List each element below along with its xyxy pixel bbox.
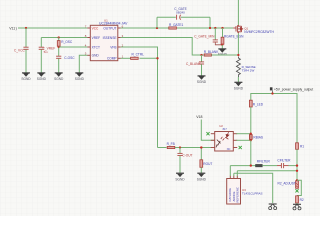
node opto collector — [250, 133, 252, 135]
wire R1 column — [296, 93, 298, 143]
no-connect X (U2 pin bottom-right) — [239, 146, 242, 149]
svg-text:RFILTER: RFILTER — [257, 160, 271, 164]
svg-text:CFILTER: CFILTER — [277, 159, 291, 163]
wire U3 cathode riser — [229, 166, 231, 176]
node RGATE_BGN/C_GATE_MIN join — [221, 44, 223, 46]
wire C_BLANK column lower — [201, 64, 203, 75]
ground SGND (C-OUT) — [175, 173, 185, 181]
wire ISSENSE trace — [121, 38, 204, 56]
wire C-OUT column lower — [179, 156, 181, 173]
pin 1 COMP — [107, 55, 124, 61]
node opto emitter — [250, 139, 252, 141]
wire C_VCC column upper — [25, 28, 27, 47]
svg-text:REFERENC: REFERENC — [235, 187, 239, 202]
optocoupler U2 LED — [221, 132, 230, 140]
svg-text:GND: GND — [92, 54, 100, 58]
node VREF/R_OSC junction — [58, 36, 60, 38]
capacitor C-OUT — [177, 153, 182, 155]
wire U1 GND pin to ground — [79, 55, 87, 72]
wire RFILTER to CFILTER — [262, 165, 277, 167]
wire join to ground — [221, 45, 223, 49]
resistor R_BLANK — [204, 54, 211, 56]
svg-text:R_BLANK: R_BLANK — [204, 50, 219, 54]
pin 6 OUTPUT — [103, 24, 123, 30]
svg-text:V11: V11 — [9, 26, 15, 30]
wire R_OSC to XTCT node — [58, 46, 60, 56]
svg-text:RGATE_BGN: RGATE_BGN — [224, 34, 244, 38]
ground SGND (C_VREF) — [37, 73, 47, 81]
svg-text:C-OUT: C-OUT — [182, 154, 192, 158]
wire VFB trace — [121, 47, 158, 148]
svg-text:SGND: SGND — [54, 77, 64, 81]
node R_FB/opto junction — [200, 146, 202, 148]
svg-text:NC: NC — [227, 148, 231, 151]
wire V11 to U1 VCC — [18, 27, 87, 29]
pin 5 GND — [85, 52, 100, 58]
optocoupler U2 body — [215, 124, 234, 151]
svg-text:TL431CLPRAS: TL431CLPRAS — [242, 192, 263, 196]
svg-text:R2: R2 — [300, 198, 304, 202]
transistor Q1 — [233, 25, 242, 34]
wire reference row (wire2) — [237, 170, 297, 172]
resistor R_OSC — [57, 41, 60, 47]
wire cathode row (wire1) — [230, 165, 255, 167]
wire C_BLANK column upper — [201, 55, 203, 62]
wire CFILTER to R1 column — [289, 165, 298, 167]
svg-text:R2_ADJUST: R2_ADJUST — [278, 182, 296, 186]
node RBIAS column joins wire1 — [250, 164, 252, 166]
chassis ground (R2) — [293, 204, 301, 210]
capacitor C_VCC — [23, 47, 28, 49]
wire anode row (wire3) — [234, 173, 273, 203]
wire C_GATE_MIN column — [214, 28, 216, 40]
node +5V port junction — [271, 92, 273, 94]
resistor R_GATE1 — [169, 27, 177, 29]
pin 8 VREF — [85, 34, 100, 40]
wire VREF row — [41, 37, 87, 39]
capacitor C-OSC — [56, 56, 61, 58]
node V11/C_VCC junction — [25, 27, 27, 29]
wire V18 riser — [201, 120, 214, 141]
svg-text:SGND: SGND — [37, 77, 47, 81]
capacitor C_GATE — [177, 15, 181, 20]
svg-text:U2: U2 — [219, 124, 223, 128]
node wire1 / R1 column — [296, 164, 298, 166]
svg-text:SGND: SGND — [75, 77, 85, 81]
resistor R2_ADJUST — [296, 181, 299, 189]
svg-text:SGND: SGND — [21, 77, 31, 81]
svg-text:R1: R1 — [300, 145, 304, 149]
wire COMP trace — [121, 57, 131, 59]
ground SGND (C_VCC) — [21, 73, 31, 81]
wire RBIAS node down to RFILTER row — [250, 140, 252, 165]
svg-text:R_CTRL: R_CTRL — [132, 53, 145, 57]
ground SGND (ROUT) — [197, 173, 207, 181]
pin 3 ISSENSE — [103, 34, 124, 40]
wire C_GATE branch up — [156, 17, 158, 28]
svg-text:C_BLANK: C_BLANK — [186, 62, 201, 66]
resistor R2 — [296, 196, 299, 203]
node XTCT junction — [58, 46, 60, 48]
U2 left pin stubs — [211, 134, 215, 148]
wire OUTPUT row left part — [121, 27, 169, 29]
wire ROUT column upper — [200, 148, 202, 160]
svg-text:SGND: SGND — [197, 178, 207, 182]
ground SGND (R_SENSE) — [234, 82, 244, 90]
wire R_SENSE to ground — [237, 77, 239, 82]
no-connect X (R2_ADJUST wiper) — [295, 189, 298, 192]
wire Q1 drain up to edge — [237, 0, 239, 25]
ground SGND (C-OSC) — [54, 73, 64, 81]
svg-text:OUTPUT: OUTPUT — [103, 26, 116, 30]
svg-text:VREF: VREF — [92, 36, 101, 40]
node ROUT tap — [200, 146, 202, 148]
wire C_GATE branch down — [209, 17, 211, 28]
svg-text:817: 817 — [223, 128, 228, 131]
wire C-OUT column upper — [179, 148, 181, 154]
wire ROUT column lower — [200, 167, 202, 173]
wire XTCT row — [59, 46, 88, 48]
wire R_BLANK to sense node — [212, 54, 239, 56]
node RGATE_BGN tap — [221, 27, 223, 29]
wire U2 collector to +5V column — [236, 133, 251, 135]
node COMP/VFB junction — [156, 57, 158, 59]
op-amp U1 UC2844 PWM controller body — [90, 18, 128, 60]
resistor ROUT — [200, 160, 203, 168]
svg-text:V18: V18 — [196, 115, 202, 119]
ground SGND (gate) — [218, 49, 228, 57]
wire R_FB row left — [158, 147, 167, 149]
port +5V_power_supply_output — [270, 87, 313, 93]
svg-text:SGND: SGND — [175, 178, 185, 182]
capacitor C_VREF — [39, 47, 44, 49]
svg-text:R_GATE1: R_GATE1 — [169, 23, 184, 27]
wire Q1 source down — [237, 33, 239, 55]
wire U3 reference riser — [236, 171, 238, 176]
svg-text:NVMFC2RC8ZWTH: NVMFC2RC8ZWTH — [244, 30, 274, 34]
svg-text:UC2844MN04 JAV: UC2844MN04 JAV — [99, 22, 128, 26]
node C-OUT tap — [179, 146, 181, 148]
wire C_GATE branch top left — [157, 16, 176, 18]
pin 2 VFB — [110, 43, 123, 49]
node R2_ADJUST top — [296, 179, 298, 181]
svg-text:R_FB: R_FB — [167, 142, 175, 146]
svg-text:T3R4 2W: T3R4 2W — [242, 68, 255, 72]
node OUTPUT / C_GATE branch — [156, 27, 158, 29]
node C_BLANK tap — [200, 54, 202, 56]
node wire2 / R1 column — [296, 170, 298, 172]
svg-text:): ) — [16, 26, 17, 30]
optocoupler U2 phototransistor — [216, 140, 221, 148]
svg-text:ROUT: ROUT — [203, 162, 212, 166]
resistor RFILTER — [256, 164, 263, 167]
wire R1 lower — [296, 149, 298, 180]
capacitor C_BLANK — [199, 62, 204, 64]
svg-text:C_GATE_MIN: C_GATE_MIN — [194, 34, 215, 38]
wire R2_ADJUST bypass jumper — [297, 180, 301, 195]
node sense junction — [237, 54, 239, 56]
svg-text:RBIAS: RBIAS — [253, 136, 263, 140]
U2 right pin stubs — [233, 134, 237, 148]
capacitor CFILTER — [277, 163, 289, 168]
resistor R_FB — [167, 146, 175, 148]
wire U2 emitter to +5V column — [236, 139, 251, 141]
wire +5V rail — [251, 93, 297, 95]
wire R_LED to opto collector node — [250, 107, 252, 134]
svg-text:SGND: SGND — [234, 87, 244, 91]
capacitor C_GATE_MIN — [213, 40, 218, 42]
wire C_VREF column upper — [40, 38, 42, 48]
svg-text:XTCT: XTCT — [92, 45, 100, 49]
wire R_CTRL to VFB column — [140, 57, 158, 59]
svg-text:VFB: VFB — [110, 45, 116, 49]
voltage reference U3 TL431 body — [227, 179, 263, 205]
svg-text:ISSENSE: ISSENSE — [103, 36, 117, 40]
svg-text:C_VCC: C_VCC — [14, 48, 26, 52]
svg-text:5m: 5m — [44, 50, 49, 54]
port V11 — [9, 26, 17, 30]
wire C_GATE_MIN bottom jog — [215, 42, 222, 45]
wire R_LED column upper — [250, 93, 252, 100]
resistor R_CTRL — [131, 57, 139, 59]
svg-text:R_OSC: R_OSC — [61, 40, 73, 44]
wire C_VREF column lower — [40, 50, 42, 73]
wire U3 anode riser — [233, 173, 235, 176]
svg-text:VCC: VCC — [92, 26, 99, 30]
wire OUTPUT row right part to Q1 gate — [177, 27, 233, 29]
svg-text:SGND: SGND — [197, 80, 207, 84]
svg-text:0B240: 0B240 — [176, 10, 185, 14]
wire C_VCC column lower — [25, 50, 27, 73]
wire C-OSC lower — [58, 59, 60, 73]
resistor R1 — [296, 143, 299, 150]
chassis ground (anode) — [269, 204, 277, 210]
resistor RBIAS — [249, 135, 252, 140]
pin 4 XTCT — [85, 43, 100, 49]
wire C_GATE branch top right — [181, 16, 210, 18]
node C_GATE rejoin — [209, 27, 211, 29]
ground SGND (U1 GND) — [75, 73, 85, 81]
ground SGND (C_BLANK) — [197, 76, 207, 84]
wire R2 to ground — [296, 203, 298, 204]
svg-text:COMP: COMP — [107, 57, 117, 61]
pin 7 VCC — [85, 24, 99, 30]
svg-text:+5V_power_supply_output: +5V_power_supply_output — [274, 87, 313, 91]
resistor R_LED — [249, 100, 252, 107]
node C_GATE_MIN tap — [214, 27, 216, 29]
wire R_FB row right — [175, 147, 215, 149]
resistor R_SENSE (zigzag) — [236, 57, 240, 78]
resistor RGATE_BGN — [221, 28, 244, 44]
wire R_OSC top stub — [58, 38, 60, 41]
U3 pin stubs — [230, 176, 237, 179]
svg-text:R_LED: R_LED — [253, 102, 264, 106]
no-connect X (U2 pin top-left) — [206, 132, 209, 135]
svg-text:C-OSC: C-OSC — [64, 56, 75, 60]
